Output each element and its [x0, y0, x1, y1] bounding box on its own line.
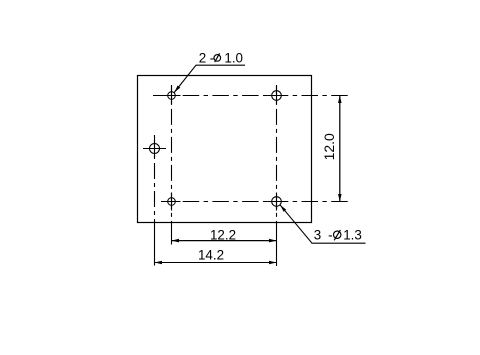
svg-text:1.3: 1.3 — [343, 228, 362, 243]
svg-text:12.2: 12.2 — [210, 228, 236, 243]
svg-text:3: 3 — [314, 228, 321, 243]
svg-text:-: - — [328, 228, 332, 243]
svg-text:12.0: 12.0 — [321, 133, 337, 160]
svg-text:2: 2 — [199, 50, 206, 65]
svg-text:1.0: 1.0 — [224, 50, 243, 65]
svg-text:14.2: 14.2 — [198, 247, 224, 262]
